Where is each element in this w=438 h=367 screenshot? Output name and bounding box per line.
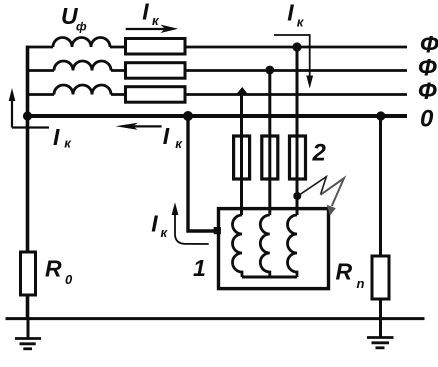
inductor source winding phase B (54, 61, 111, 71)
arrow Ik up far left (12, 126, 49, 128)
fault lightning symbol (298, 177, 326, 196)
wire phase B line (26, 69, 54, 72)
svg-text:2: 2 (312, 139, 327, 166)
ground right stub (379, 319, 382, 337)
node junction phase B tap (265, 66, 274, 75)
node junction on 0 bus left (23, 111, 32, 120)
arrow Ik bent down into neutral area (274, 35, 310, 78)
node junction phase C tap (236, 87, 249, 95)
inductor load winding a (233, 215, 243, 277)
svg-text:I: I (287, 0, 294, 26)
wire star point bar (242, 276, 297, 279)
node junction fault point (293, 192, 301, 200)
fuse F2 (262, 136, 278, 179)
node junction phase A tap (292, 42, 301, 51)
wire phase C line (26, 93, 54, 96)
svg-text:R: R (336, 259, 353, 285)
resistor R0 (21, 252, 36, 295)
wire drop from phase A to fuse (296, 47, 299, 215)
svg-text:R: R (45, 256, 62, 282)
wire left source bus (26, 46, 30, 319)
resistor line impedance phase A (126, 39, 186, 55)
wire neutral drop to Rn (379, 116, 382, 319)
resistor Rn (372, 256, 389, 299)
wire drop from phase B to fuse (268, 71, 271, 216)
wire phase A line (26, 46, 53, 49)
svg-text:1: 1 (193, 255, 206, 281)
svg-text:0: 0 (420, 106, 434, 133)
fuse F3 (290, 136, 306, 179)
node junction on 0 bus right (376, 111, 385, 120)
ground left symbol (15, 339, 41, 349)
svg-text:ф: ф (76, 20, 87, 34)
inductor source winding phase C (54, 85, 111, 95)
resistor line impedance phase C (126, 87, 186, 103)
inductor source winding phase A (53, 38, 110, 48)
wire neutral tap to load box (188, 116, 219, 231)
svg-text:I: I (163, 123, 170, 149)
arrow Ik top right-pointing (126, 28, 166, 30)
wire neutral 0 bus (26, 114, 407, 118)
node terminal square on box left (214, 227, 221, 234)
node junction on 0 bus middle (183, 111, 193, 121)
svg-text:I: I (53, 124, 60, 150)
load box 1 outline (219, 209, 329, 289)
inductor load winding b (260, 215, 270, 277)
svg-text:I: I (142, 0, 149, 24)
resistor line impedance phase B (126, 63, 186, 78)
svg-text:n: n (357, 276, 365, 291)
inductor load winding c (288, 215, 298, 277)
wire drop from phase C to fuse (240, 95, 243, 216)
fuse F1 (234, 136, 250, 179)
arrow Ik left-pointing under 0 bus (132, 125, 162, 127)
svg-text:Ф: Ф (418, 78, 437, 105)
arrow Ik curved into load box (175, 206, 209, 244)
ground right symbol (367, 338, 394, 348)
svg-text:I: I (151, 210, 158, 236)
wire earth bus (6, 317, 425, 320)
ground left stub (27, 319, 30, 338)
svg-text:0: 0 (65, 272, 73, 287)
